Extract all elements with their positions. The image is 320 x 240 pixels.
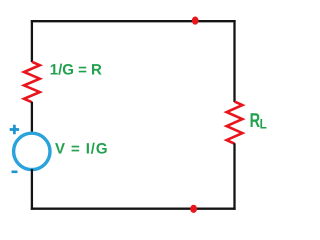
wire left upper	[31, 20, 33, 62]
wire left middle	[31, 102, 33, 134]
wire right lower	[233, 143, 235, 210]
svg-text:L: L	[260, 116, 268, 132]
wire right upper	[233, 20, 235, 102]
junction dot top node	[192, 17, 199, 25]
minus polarity mark	[12, 171, 18, 174]
resistor RL	[227, 102, 243, 144]
plus polarity mark	[10, 125, 19, 134]
wire left lower	[31, 169, 33, 210]
wire top (node between source and RL)	[31, 20, 236, 22]
junction dot bottom node	[190, 205, 197, 213]
source V1 (V = I/G)	[14, 133, 50, 169]
wire bottom	[31, 208, 236, 210]
svg-text:V = I/G: V = I/G	[55, 140, 108, 157]
resistor R (1/G = R)	[24, 62, 40, 102]
svg-text:1/G = R: 1/G = R	[50, 62, 102, 79]
